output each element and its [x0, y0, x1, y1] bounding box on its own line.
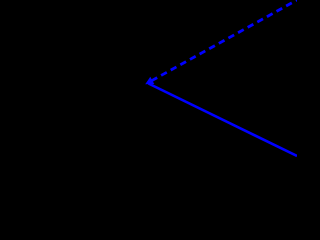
ray diagram: apparent (dashed) vs actual (solid) light ray — [0, 0, 297, 164]
arrowhead at vertex — [145, 77, 154, 85]
wire solid outgoing ray — [149, 84, 298, 157]
wire dashed incoming ray — [152, 0, 298, 81]
